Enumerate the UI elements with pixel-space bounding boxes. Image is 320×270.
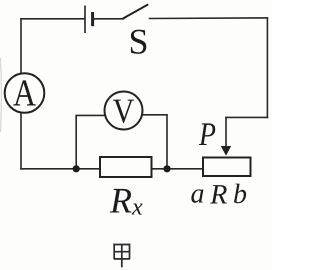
switch S blade (124, 5, 148, 18)
svg-text:V: V (113, 92, 135, 131)
wire voltmeter left branch (76, 115, 105, 168)
svg-text:P: P (198, 117, 216, 153)
rheostat R box (203, 158, 251, 177)
wire right vertical (266, 18, 268, 118)
junction node left (73, 165, 80, 172)
svg-text:R: R (209, 180, 227, 211)
wire battery to switch (94, 18, 124, 20)
wire left vertical through ammeter (20, 19, 22, 169)
voltmeter V1 circle (105, 92, 143, 130)
scan artifact left edge (0, 58, 2, 132)
svg-text:a: a (191, 179, 205, 210)
wire top-left horizontal (21, 18, 84, 20)
rheostat slider arrowhead (221, 146, 231, 156)
svg-text:A: A (13, 73, 37, 115)
wire bottom horizontal (21, 168, 203, 170)
ammeter A1 circle (5, 73, 45, 113)
battery short plate (91, 12, 94, 26)
svg-text:b: b (233, 179, 247, 210)
svg-text:R: R (109, 181, 132, 221)
junction node right (163, 165, 170, 172)
svg-text:S: S (128, 22, 148, 62)
wire slider vertical (225, 117, 227, 147)
svg-text:x: x (131, 195, 143, 221)
wire jog to slider (226, 116, 267, 118)
wire voltmeter right branch (142, 115, 168, 169)
resistor Rx box (100, 157, 152, 177)
battery long plate (84, 6, 86, 34)
wire switch to top-right corner (150, 17, 268, 20)
caption 甲 (drawn) (113, 244, 130, 268)
